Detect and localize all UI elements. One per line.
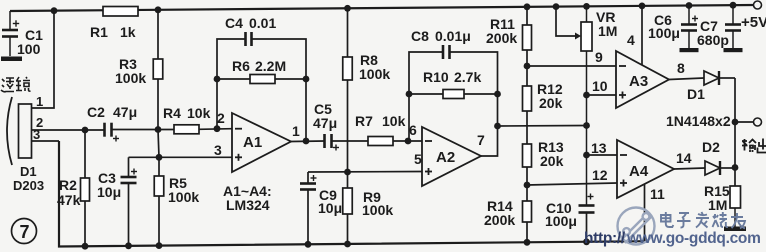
wire: R11-R12 node to A3 inverting input bbox=[527, 65, 616, 67]
label pin 6 of A2 bbox=[409, 122, 417, 138]
resistor R1 bbox=[103, 7, 138, 17]
label C10 bbox=[546, 200, 572, 216]
node output tap bbox=[732, 119, 739, 126]
label pin 4 of A3 bbox=[627, 32, 635, 48]
svg-text:100μ: 100μ bbox=[648, 25, 680, 41]
value 100 of C1 bbox=[17, 41, 41, 57]
label A1 bbox=[243, 134, 262, 151]
label pin 9 of A3 bbox=[595, 49, 603, 65]
node R2 bottom bbox=[82, 243, 89, 250]
resistor R14 bbox=[523, 185, 532, 242]
svg-text:7: 7 bbox=[477, 132, 485, 148]
pin 1 of detector bbox=[32, 11, 55, 108]
svg-text:1: 1 bbox=[36, 94, 43, 109]
label VR bbox=[596, 9, 615, 25]
svg-text:47k: 47k bbox=[57, 192, 81, 208]
wire D2 cathode to output riser bbox=[720, 167, 735, 169]
op-amp A3 bbox=[616, 51, 669, 108]
resistor R9 bbox=[343, 172, 353, 244]
wire: D1 to D2 output riser bbox=[734, 78, 736, 186]
label pin 1 bbox=[36, 94, 43, 109]
label R6 bbox=[232, 58, 250, 74]
label LM324 bbox=[226, 197, 270, 213]
node pin13 junction bbox=[583, 152, 590, 159]
svg-text:0.01μ: 0.01μ bbox=[435, 28, 471, 44]
node R3 bottom bbox=[155, 126, 162, 133]
value 200k of R14 bbox=[484, 212, 515, 228]
node signal line junction bbox=[583, 122, 590, 129]
node: detector pin1 to +5V rail bbox=[51, 7, 58, 14]
svg-text:1N4148x2: 1N4148x2 bbox=[666, 113, 731, 129]
minus input mark of A2 bbox=[425, 140, 432, 142]
svg-text:+5V: +5V bbox=[741, 14, 766, 31]
value 0.01μ of C8 bbox=[435, 28, 471, 44]
resistor R13 bbox=[523, 144, 532, 185]
value 1M of R15 bbox=[708, 197, 727, 213]
label D1 bbox=[687, 86, 705, 102]
label C2 bbox=[87, 104, 105, 120]
output terminal circle bbox=[754, 118, 762, 126]
label pin 11 of A4 bbox=[650, 186, 665, 202]
label C6 bbox=[654, 12, 672, 28]
value 100k of R9 bbox=[362, 202, 393, 218]
node C10 bottom bbox=[583, 238, 590, 245]
wire A2 output bbox=[481, 126, 498, 156]
wire: R13-R14 node to A4 non-inverting input bbox=[527, 183, 617, 185]
label pin 3 of A1 bbox=[214, 142, 222, 158]
wire: bias node to A2 non-inverting input bbox=[308, 171, 422, 174]
svg-text:10: 10 bbox=[592, 78, 608, 94]
svg-text:2.2M: 2.2M bbox=[255, 58, 286, 74]
svg-text:6: 6 bbox=[409, 122, 417, 138]
diode D1 bbox=[704, 71, 719, 85]
svg-text:C4: C4 bbox=[225, 15, 243, 31]
node A1 inverting input junction bbox=[214, 125, 221, 132]
wire: signal to A4 inverting input bbox=[587, 154, 618, 156]
node VR top on rail bbox=[583, 3, 590, 10]
label R1 bbox=[90, 24, 108, 40]
node C6 on rail bbox=[686, 2, 693, 9]
label C3 bbox=[98, 170, 116, 186]
label R9 bbox=[363, 189, 381, 205]
value 200k of R11 bbox=[486, 30, 517, 46]
svg-text:A4: A4 bbox=[629, 163, 649, 180]
watermark url http:// bbox=[584, 230, 626, 247]
svg-text:100μ: 100μ bbox=[545, 213, 577, 229]
node pin10 junction bbox=[583, 92, 590, 99]
label R14 bbox=[487, 198, 513, 214]
label pin 1 of A1 bbox=[292, 123, 300, 139]
wire: ground bottom rail bbox=[59, 141, 647, 247]
svg-text:7: 7 bbox=[20, 222, 30, 242]
resistor R11 bbox=[523, 7, 532, 66]
ground for C6 bbox=[680, 48, 699, 52]
wire: A2 output to comparator inputs bbox=[498, 125, 587, 128]
label pin 13 of A4 bbox=[591, 140, 607, 156]
node wiper on rail bbox=[553, 3, 560, 10]
label C8 bbox=[411, 28, 429, 44]
polarity + of C6 bbox=[692, 16, 698, 22]
photodetector D1 D203 body bbox=[19, 104, 32, 158]
wire A1 output bbox=[291, 140, 325, 143]
svg-text:C2: C2 bbox=[87, 104, 105, 120]
svg-text:A3: A3 bbox=[629, 73, 648, 90]
figure number circled 7 bbox=[12, 219, 37, 244]
wiper of VR bbox=[556, 7, 581, 40]
op-amp A1 bbox=[232, 113, 291, 172]
node A2 output riser bbox=[494, 123, 501, 130]
wire to output terminal bbox=[735, 121, 754, 123]
svg-text:9: 9 bbox=[595, 49, 603, 65]
label R4 bbox=[163, 105, 181, 121]
op-amp A4 bbox=[617, 140, 674, 198]
svg-text:www.go-gddq.com: www.go-gddq.com bbox=[626, 230, 761, 247]
wire A3 output bbox=[669, 78, 704, 80]
svg-text:100k: 100k bbox=[359, 66, 390, 82]
svg-text:D1: D1 bbox=[20, 164, 37, 179]
svg-text:10k: 10k bbox=[382, 113, 406, 129]
wire: signal to A3 non-inverting input bbox=[587, 94, 617, 96]
svg-text:12: 12 bbox=[592, 167, 608, 183]
node bias junction bbox=[344, 169, 351, 176]
polarity + of C5 bbox=[333, 145, 339, 151]
resistor R5 bbox=[154, 157, 164, 245]
svg-text:R7: R7 bbox=[355, 113, 373, 129]
label C5 bbox=[314, 101, 332, 117]
capacitor C5 bbox=[325, 134, 332, 148]
pin 11 supply wire of A4 bbox=[644, 184, 646, 241]
wire C5 to R7 bbox=[332, 140, 369, 142]
svg-text:1M: 1M bbox=[708, 197, 727, 213]
plus input mark of A1 bbox=[235, 154, 242, 161]
potentiometer VR bbox=[581, 6, 592, 205]
minus input mark of A1 bbox=[235, 128, 242, 130]
capacitor C7 bbox=[725, 5, 741, 48]
label R5 bbox=[169, 175, 187, 191]
label R3 bbox=[119, 56, 137, 72]
value 20k of R13 bbox=[540, 153, 564, 169]
label pin 7 of A2 bbox=[477, 132, 485, 148]
resistor R10 bbox=[409, 64, 498, 141]
svg-text:10μ: 10μ bbox=[97, 184, 121, 200]
wire R4 to A1 inverting input bbox=[199, 128, 232, 131]
svg-text:100: 100 bbox=[17, 41, 41, 57]
svg-text:3: 3 bbox=[33, 127, 40, 142]
capacitor C1 bbox=[2, 11, 18, 56]
svg-text:20k: 20k bbox=[540, 153, 564, 169]
svg-text:R2: R2 bbox=[59, 177, 77, 193]
svg-text:10k: 10k bbox=[187, 105, 211, 121]
node R10 right bbox=[494, 91, 501, 98]
svg-text:http://: http:// bbox=[584, 230, 626, 247]
svg-text:100k: 100k bbox=[168, 189, 199, 205]
value 10μ of C3 bbox=[97, 184, 121, 200]
resistor R8 bbox=[343, 8, 353, 172]
label A4 bbox=[629, 163, 649, 180]
node R11 top on rail bbox=[524, 3, 531, 10]
wire: C3 node to A1 non-inverting input bbox=[129, 156, 233, 158]
svg-text:200k: 200k bbox=[486, 30, 517, 46]
label pin 3 bbox=[33, 127, 40, 142]
svg-text:1M: 1M bbox=[598, 23, 617, 39]
node R2 top bbox=[82, 127, 89, 134]
value 100k of R8 bbox=[359, 66, 390, 82]
label pin 2 bbox=[36, 115, 43, 130]
value 2.7k of R10 bbox=[454, 69, 481, 85]
value 680p of C7 bbox=[697, 32, 729, 48]
node pin4 on rail bbox=[639, 3, 646, 10]
svg-text:R4: R4 bbox=[163, 105, 181, 121]
plus input mark of A3 bbox=[619, 92, 626, 99]
svg-text:14: 14 bbox=[676, 150, 692, 166]
svg-text:R6: R6 bbox=[232, 58, 250, 74]
capacitor C8 bbox=[409, 45, 498, 64]
node R10 left bbox=[406, 91, 413, 98]
svg-text:LM324: LM324 bbox=[226, 197, 270, 213]
value 1k of R1 bbox=[120, 24, 136, 40]
wire R7 to A2 inverting input bbox=[393, 140, 422, 142]
node C3 bottom bbox=[125, 242, 132, 249]
label +5V bbox=[741, 14, 766, 31]
plus input mark of A2 bbox=[425, 168, 432, 175]
label D1 bbox=[20, 164, 37, 179]
svg-text:D203: D203 bbox=[13, 178, 44, 193]
resistor R15 bbox=[730, 186, 741, 227]
resistor R2 bbox=[81, 130, 90, 246]
wire: +5V top supply rail bbox=[10, 5, 754, 11]
minus input mark of A4 bbox=[620, 154, 627, 156]
value 47μ of C5 bbox=[313, 115, 337, 131]
label C9 bbox=[319, 187, 337, 203]
label C1 bbox=[25, 27, 43, 43]
label A1~A4: bbox=[223, 183, 272, 199]
pin 2 wire of detector bbox=[32, 129, 105, 131]
resistor R4 bbox=[174, 125, 199, 134]
plus input mark of A4 bbox=[620, 180, 627, 187]
svg-text:2: 2 bbox=[217, 110, 225, 126]
label R10 bbox=[423, 69, 449, 85]
wire C2 to R4 bbox=[112, 129, 175, 131]
polarity + of C1 bbox=[13, 20, 19, 26]
capacitor C2 bbox=[105, 123, 112, 137]
svg-text:100k: 100k bbox=[115, 70, 146, 86]
svg-text:20k: 20k bbox=[539, 95, 563, 111]
node R14 bottom bbox=[524, 239, 531, 246]
node C9 bottom bbox=[305, 241, 312, 248]
pin 3 wire of detector to ground bbox=[32, 140, 60, 142]
svg-text:5: 5 bbox=[414, 151, 422, 167]
svg-text:A2: A2 bbox=[436, 149, 455, 166]
node R8 top on rail bbox=[344, 5, 351, 12]
label R13 bbox=[538, 139, 564, 155]
svg-text:10μ: 10μ bbox=[318, 200, 342, 216]
svg-text:13: 13 bbox=[591, 140, 607, 156]
value 10μ of C9 bbox=[318, 200, 342, 216]
label pin 5 of A2 bbox=[414, 151, 422, 167]
svg-text:47μ: 47μ bbox=[313, 115, 337, 131]
label pin 14 of A4 bbox=[676, 150, 692, 166]
+5V terminal circle bbox=[754, 1, 762, 9]
label R12 bbox=[537, 81, 563, 97]
node R13-R14 junction bbox=[524, 182, 531, 189]
resistor R6 bbox=[217, 52, 306, 141]
watermark text 电子发烧友 bbox=[661, 212, 745, 229]
watermark url www.go-gddq.com bbox=[626, 230, 761, 247]
label 输出 (output) bbox=[742, 139, 766, 153]
value 0.01 of C4 bbox=[249, 15, 276, 31]
label 透镜 (lens) bbox=[1, 77, 31, 92]
wire D1 cathode to output riser bbox=[719, 77, 735, 79]
label pin 10 of A3 bbox=[592, 78, 608, 94]
svg-text:200k: 200k bbox=[484, 212, 515, 228]
label 1N4148x2 bbox=[666, 113, 731, 129]
label D2 bbox=[702, 139, 720, 155]
label pin 2 of A1 bbox=[217, 110, 225, 126]
svg-text:D1: D1 bbox=[687, 86, 705, 102]
svg-text:R10: R10 bbox=[423, 69, 449, 85]
watermark logo bbox=[618, 208, 655, 245]
op-amp A2 bbox=[422, 127, 481, 186]
svg-text:R1: R1 bbox=[90, 24, 108, 40]
node R3 top on rail bbox=[155, 6, 162, 13]
value 47μ of C2 bbox=[113, 104, 137, 120]
value 47k of R2 bbox=[57, 192, 81, 208]
polarity + of C9 bbox=[311, 175, 317, 181]
ground for R15 bbox=[724, 227, 746, 232]
node R6 right bbox=[303, 76, 310, 83]
value 20k of R12 bbox=[539, 95, 563, 111]
label A3 bbox=[629, 73, 648, 90]
label C4 bbox=[225, 15, 243, 31]
capacitor C9 bbox=[300, 172, 316, 244]
svg-text:11: 11 bbox=[650, 186, 665, 202]
label R7 bbox=[355, 113, 373, 129]
node R11-R12 junction bbox=[524, 63, 531, 70]
svg-text:1k: 1k bbox=[120, 24, 136, 40]
polarity + of C2 bbox=[113, 136, 119, 142]
node R6 left bbox=[214, 76, 221, 83]
lens arc bbox=[7, 97, 12, 165]
capacitor C10 bbox=[579, 206, 595, 242]
polarity + of C3 bbox=[131, 169, 137, 175]
ground for C7 bbox=[724, 48, 743, 52]
svg-text:680p: 680p bbox=[697, 32, 729, 48]
capacitor C6 bbox=[681, 6, 697, 49]
resistor R12 bbox=[523, 66, 532, 144]
pin 4 supply wire of A3 bbox=[641, 6, 643, 65]
value 100k of R5 bbox=[168, 189, 199, 205]
diode D2 bbox=[705, 161, 720, 175]
svg-text:47μ: 47μ bbox=[113, 104, 137, 120]
value 10k of R7 bbox=[382, 113, 406, 129]
wire R3-R5 link bbox=[158, 130, 159, 158]
svg-text:D2: D2 bbox=[702, 139, 720, 155]
label C7 bbox=[700, 18, 718, 34]
node A2 inverting input junction bbox=[405, 138, 412, 145]
label R8 bbox=[360, 52, 378, 68]
svg-text:4: 4 bbox=[627, 32, 635, 48]
svg-text:2.7k: 2.7k bbox=[454, 69, 481, 85]
polarity + of C10 bbox=[588, 194, 594, 200]
capacitor C3 bbox=[121, 157, 137, 246]
node D2 junction bbox=[732, 164, 739, 171]
resistor R7 bbox=[368, 137, 393, 146]
value 100μ of C6 bbox=[648, 25, 680, 41]
label pin 8 of A3 bbox=[677, 60, 685, 76]
value 2.2M of R6 bbox=[255, 58, 286, 74]
value 10k of R4 bbox=[187, 105, 211, 121]
value 100k of R3 bbox=[115, 70, 146, 86]
node A1 output junction bbox=[303, 138, 310, 145]
wire A4 output bbox=[674, 168, 705, 169]
node C7 on rail bbox=[730, 2, 737, 9]
svg-text:A1: A1 bbox=[243, 134, 262, 151]
label D203 bbox=[13, 178, 44, 193]
node R9 bottom bbox=[344, 241, 351, 248]
label pin 12 of A4 bbox=[592, 167, 608, 183]
svg-text:8: 8 bbox=[677, 60, 685, 76]
ground for C1 bbox=[1, 57, 22, 62]
svg-text:1: 1 bbox=[292, 123, 300, 139]
resistor R3 bbox=[153, 10, 163, 129]
svg-text:3: 3 bbox=[214, 142, 222, 158]
minus input mark of A3 bbox=[619, 65, 626, 67]
node R5 top junction bbox=[156, 154, 163, 161]
label R15 bbox=[704, 183, 730, 199]
value 100μ of C10 bbox=[545, 213, 577, 229]
node R5 bottom bbox=[156, 242, 163, 249]
svg-text:100k: 100k bbox=[362, 202, 393, 218]
capacitor C4 bbox=[217, 32, 306, 52]
svg-text:0.01: 0.01 bbox=[249, 15, 276, 31]
label R2 bbox=[59, 177, 77, 193]
svg-text:C8: C8 bbox=[411, 28, 429, 44]
label A2 bbox=[436, 149, 455, 166]
label R11 bbox=[490, 16, 515, 32]
value 1M of VR bbox=[598, 23, 617, 39]
